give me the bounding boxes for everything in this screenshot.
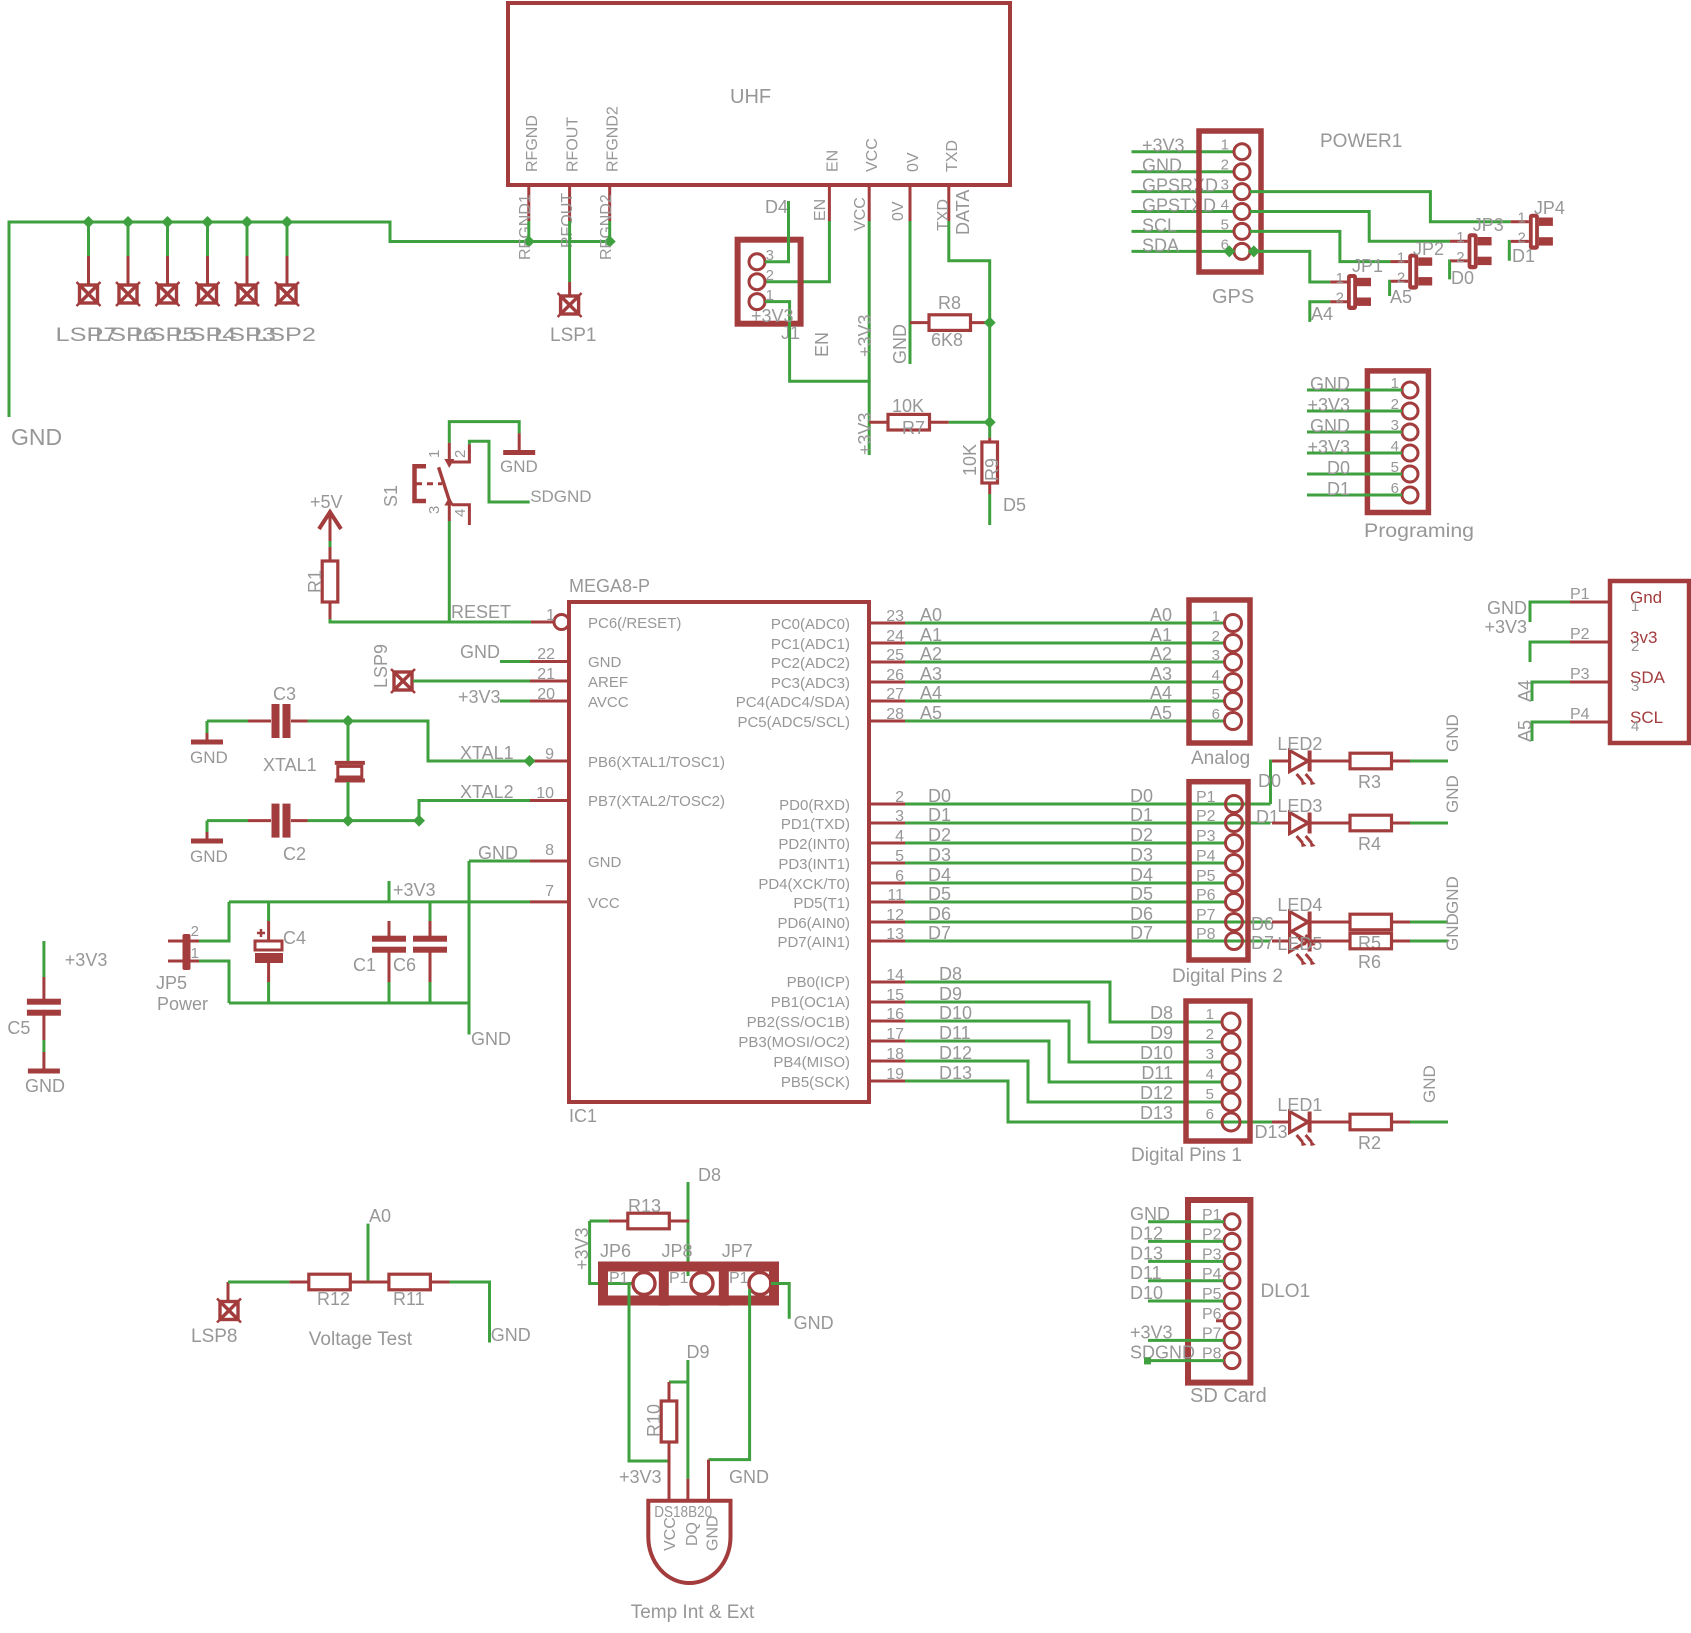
capacitor C4 electrolytic <box>255 902 306 1003</box>
svg-text:R8: R8 <box>938 293 961 313</box>
svg-text:RFOUT: RFOUT <box>565 117 582 172</box>
svg-text:A2: A2 <box>920 644 942 664</box>
svg-text:5: 5 <box>1221 216 1229 233</box>
svg-text:VCC: VCC <box>588 895 620 912</box>
svg-text:D1: D1 <box>1130 805 1153 825</box>
wire +3V3 to JP6 <box>572 1221 633 1284</box>
svg-text:2: 2 <box>895 789 904 806</box>
svg-text:JP3: JP3 <box>1473 215 1504 235</box>
svg-text:GND: GND <box>1443 714 1462 752</box>
pad LSP7 <box>56 216 118 346</box>
svg-text:26: 26 <box>886 667 904 684</box>
net GND pin8 <box>469 843 530 863</box>
svg-text:27: 27 <box>886 686 904 703</box>
svg-text:28: 28 <box>886 706 904 723</box>
pad LSP3 <box>214 216 276 346</box>
svg-text:2: 2 <box>1397 269 1405 286</box>
svg-text:IC1: IC1 <box>569 1106 597 1126</box>
svg-text:LSP9: LSP9 <box>371 644 391 688</box>
svg-text:D10: D10 <box>1130 1283 1163 1303</box>
net A5 stub at JP2 <box>1390 281 1412 307</box>
svg-text:R13: R13 <box>628 1196 661 1216</box>
svg-text:5: 5 <box>1206 1086 1214 1103</box>
svg-text:Programing: Programing <box>1364 521 1474 542</box>
wire net A1 <box>869 625 1225 645</box>
svg-text:PB6(XTAL1/TOSC1): PB6(XTAL1/TOSC1) <box>588 754 725 771</box>
svg-text:6: 6 <box>1206 1106 1214 1123</box>
svg-text:SDA: SDA <box>1142 235 1179 255</box>
switch S1 <box>381 443 469 525</box>
node GND label <box>11 424 62 450</box>
wire net D6 <box>869 904 1271 924</box>
wire net +3V3 at GPS <box>1132 136 1235 156</box>
junction RFGND1 bus <box>523 236 535 248</box>
wire R11 to GND stub <box>450 1282 531 1345</box>
wire net D11 at SD Card <box>1130 1263 1224 1283</box>
svg-text:LED3: LED3 <box>1277 796 1322 816</box>
svg-text:Power: Power <box>157 994 208 1014</box>
net D1 stub at JP4 <box>1509 241 1535 266</box>
svg-text:DQ: DQ <box>684 1522 701 1546</box>
svg-text:3: 3 <box>1206 1046 1214 1063</box>
svg-text:D5: D5 <box>1130 884 1153 904</box>
svg-text:12: 12 <box>886 907 904 924</box>
LED LED1 <box>1272 1095 1322 1146</box>
svg-text:D12: D12 <box>1130 1223 1163 1243</box>
svg-text:P3: P3 <box>1570 666 1590 683</box>
svg-text:D12: D12 <box>1140 1083 1173 1103</box>
svg-text:P1: P1 <box>609 1270 629 1287</box>
wire C3 to XTAL1 node <box>308 720 349 723</box>
svg-text:D12: D12 <box>939 1043 972 1063</box>
wire net D10 at SD Card <box>1130 1283 1224 1303</box>
resistor R1 <box>305 547 338 619</box>
svg-text:+5V: +5V <box>310 492 343 512</box>
svg-text:D13: D13 <box>939 1063 972 1083</box>
pin P6 stub <box>1216 1319 1224 1322</box>
wire A5 at P4 <box>1515 720 1570 742</box>
junction SDA left <box>1223 245 1235 257</box>
svg-text:3: 3 <box>1221 177 1229 194</box>
resistor R8 6K8 <box>910 293 990 350</box>
svg-text:GND: GND <box>1443 876 1462 914</box>
svg-text:D0: D0 <box>928 786 951 806</box>
svg-text:4: 4 <box>1631 718 1639 735</box>
svg-text:A3: A3 <box>1150 664 1172 684</box>
svg-text:C6: C6 <box>393 955 416 975</box>
svg-text:PC3(ADC3): PC3(ADC3) <box>771 675 850 692</box>
svg-text:DLO1: DLO1 <box>1261 1281 1311 1302</box>
net label +3V3 rail stub <box>389 880 436 902</box>
svg-text:C4: C4 <box>283 928 306 948</box>
svg-text:P5: P5 <box>1196 868 1216 885</box>
connector Analog header <box>1189 600 1250 769</box>
net GND pin22 <box>460 642 530 662</box>
svg-text:D0: D0 <box>1451 268 1474 288</box>
net D4 stub to J1 pin3 <box>765 197 789 262</box>
svg-text:15: 15 <box>886 987 904 1004</box>
svg-text:6K8: 6K8 <box>931 330 963 350</box>
net A4 stub at JP1 <box>1310 302 1333 324</box>
svg-text:1: 1 <box>1212 608 1220 625</box>
capacitor C2 <box>207 804 308 864</box>
capacitor C3 <box>207 684 308 738</box>
svg-text:+3V3: +3V3 <box>619 1467 662 1487</box>
svg-text:P1: P1 <box>1196 789 1216 806</box>
svg-text:C2: C2 <box>283 844 306 864</box>
svg-text:GND: GND <box>471 1029 511 1049</box>
svg-text:D4: D4 <box>928 865 951 885</box>
svg-text:D11: D11 <box>939 1023 971 1043</box>
svg-text:RFOUT: RFOUT <box>559 193 576 248</box>
svg-text:PC1(ADC1): PC1(ADC1) <box>771 636 850 653</box>
wire net A5 <box>869 703 1225 723</box>
svg-text:+3V3: +3V3 <box>65 950 108 970</box>
wire net A0 <box>869 605 1225 625</box>
svg-text:P4: P4 <box>1196 848 1216 865</box>
ground symbol GND (C5) <box>25 1040 65 1096</box>
capacitor C5 <box>7 977 61 1040</box>
wire net D0 at Programing <box>1307 458 1402 478</box>
svg-text:4: 4 <box>1206 1066 1214 1083</box>
pad LSP8 <box>191 1282 241 1347</box>
svg-text:D5: D5 <box>1003 495 1026 515</box>
svg-text:MEGA8-P: MEGA8-P <box>569 576 650 596</box>
wire net D9 <box>869 984 1222 1043</box>
svg-text:Digital Pins 1: Digital Pins 1 <box>1131 1145 1242 1166</box>
svg-text:R3: R3 <box>1358 772 1381 792</box>
svg-text:D11: D11 <box>1130 1263 1162 1283</box>
svg-text:A1: A1 <box>1150 625 1172 645</box>
resistor R3 <box>1310 753 1410 792</box>
svg-text:GPSRXD: GPSRXD <box>1142 176 1218 196</box>
svg-text:2: 2 <box>1456 249 1464 266</box>
wire to GND (R2) <box>1410 1065 1448 1122</box>
svg-text:A4: A4 <box>920 683 942 703</box>
resistor R4 <box>1310 815 1410 854</box>
wire to GND (R3) <box>1410 714 1462 761</box>
svg-text:+3V3: +3V3 <box>855 314 875 357</box>
svg-text:R7: R7 <box>902 418 925 438</box>
svg-text:C1: C1 <box>353 955 376 975</box>
svg-text:PC2(ADC2): PC2(ADC2) <box>771 655 850 672</box>
wire net D10 <box>869 1003 1222 1063</box>
svg-text:D9: D9 <box>1150 1023 1173 1043</box>
svg-text:D9: D9 <box>687 1342 710 1362</box>
svg-text:4: 4 <box>452 509 469 517</box>
IC U1 MEGA8-P box <box>569 576 869 1126</box>
svg-text:R2: R2 <box>1358 1133 1381 1153</box>
connector JP5 Power <box>156 923 208 1014</box>
svg-text:D6: D6 <box>1130 904 1153 924</box>
wire SDGND net <box>469 441 591 506</box>
wire S1 pin3 to RESET <box>448 521 451 622</box>
wire D13 through header to LED1 <box>1222 1121 1272 1124</box>
junction XTAL1 bottom <box>342 815 354 827</box>
svg-text:D8: D8 <box>939 964 962 984</box>
svg-text:20: 20 <box>537 686 555 703</box>
resistor R10 <box>644 1382 688 1461</box>
svg-text:LSP8: LSP8 <box>191 1326 237 1347</box>
pin 22 GND <box>530 646 622 671</box>
svg-text:A5: A5 <box>1150 703 1172 723</box>
resistor R2 <box>1310 1114 1410 1153</box>
svg-text:GND: GND <box>478 843 518 863</box>
svg-text:P4: P4 <box>1570 706 1590 723</box>
svg-text:AVCC: AVCC <box>588 694 629 711</box>
svg-text:D13: D13 <box>1255 1122 1288 1142</box>
wire C2 to XTAL bottom <box>308 819 349 822</box>
svg-text:GND: GND <box>25 1076 65 1096</box>
LED LED2 <box>1272 734 1322 785</box>
svg-text:1: 1 <box>1397 250 1405 267</box>
pad LSP2 <box>254 216 316 346</box>
wire net D13 at SD Card <box>1130 1243 1224 1263</box>
pin 8 GND <box>530 842 622 871</box>
wire VCC net <box>855 221 875 455</box>
svg-text:UHF: UHF <box>730 86 771 108</box>
wire GPSTXD to JP3 <box>1250 212 1450 242</box>
jumper JP3 <box>1450 215 1504 269</box>
svg-text:GND: GND <box>1487 598 1527 618</box>
svg-text:1: 1 <box>426 450 443 458</box>
svg-text:D4: D4 <box>765 197 788 217</box>
svg-text:PB2(SS/OC1B): PB2(SS/OC1B) <box>747 1014 850 1031</box>
svg-text:JP6: JP6 <box>600 1241 631 1261</box>
wire to GND (R4) <box>1410 775 1462 823</box>
junction RFGND2 bus <box>604 236 616 248</box>
svg-text:1: 1 <box>1221 137 1229 154</box>
junction R8/DATA <box>984 317 996 329</box>
svg-text:5: 5 <box>895 848 904 865</box>
svg-text:+3V3: +3V3 <box>855 412 875 455</box>
svg-text:PB7(XTAL2/TOSC2): PB7(XTAL2/TOSC2) <box>588 793 725 810</box>
wire net GND at GPS <box>1132 156 1235 176</box>
wire +3V3 VCC rail <box>229 900 530 903</box>
svg-text:2: 2 <box>1206 1026 1214 1043</box>
wire EN net UHF to J1 pin2 <box>765 221 829 282</box>
svg-text:9: 9 <box>545 746 554 763</box>
svg-text:0V: 0V <box>905 152 922 172</box>
svg-text:P8: P8 <box>1196 926 1216 943</box>
svg-text:SCL: SCL <box>1142 215 1177 235</box>
svg-text:S1: S1 <box>381 485 401 507</box>
pad LSP4 <box>175 216 238 346</box>
svg-text:1: 1 <box>1456 229 1464 246</box>
svg-text:JP5: JP5 <box>156 973 187 993</box>
svg-text:XTAL1: XTAL1 <box>460 743 514 763</box>
svg-text:RFGND: RFGND <box>524 115 541 172</box>
svg-text:D0: D0 <box>1130 786 1153 806</box>
wire net D13 <box>869 1063 1222 1123</box>
wire net D12 <box>869 1043 1222 1103</box>
svg-text:PD4(XCK/T0): PD4(XCK/T0) <box>758 876 850 893</box>
svg-text:D1: D1 <box>928 805 951 825</box>
svg-text:P1: P1 <box>669 1270 689 1287</box>
svg-text:RFGND2: RFGND2 <box>605 106 622 172</box>
resistor R11 <box>389 1274 450 1309</box>
pad LSP1 <box>550 293 596 346</box>
svg-text:7: 7 <box>545 883 554 900</box>
wire net SDA at GPS <box>1132 235 1235 255</box>
svg-text:LSP1: LSP1 <box>550 325 596 346</box>
svg-text:GND: GND <box>11 424 62 450</box>
svg-text:D8: D8 <box>1150 1003 1173 1023</box>
svg-text:JP4: JP4 <box>1534 198 1565 218</box>
connector DLO1 SD Card <box>1188 1200 1310 1407</box>
svg-text:XTAL2: XTAL2 <box>460 782 514 802</box>
svg-text:PB0(ICP): PB0(ICP) <box>787 974 850 991</box>
svg-text:GND: GND <box>190 748 228 767</box>
svg-text:P6: P6 <box>1196 887 1216 904</box>
svg-text:D1: D1 <box>1512 246 1535 266</box>
svg-text:TXD: TXD <box>944 140 961 172</box>
svg-text:GND: GND <box>1310 416 1350 436</box>
svg-text:PB4(MISO): PB4(MISO) <box>773 1054 850 1071</box>
svg-text:P1: P1 <box>729 1270 749 1287</box>
wire +3V3 J1 pin1 to VCC rail <box>751 302 869 382</box>
svg-text:R12: R12 <box>317 1289 350 1309</box>
svg-text:D10: D10 <box>1140 1043 1173 1063</box>
wire net D8 <box>869 964 1222 1023</box>
wire net D1 <box>869 805 1271 825</box>
connector Digital Pins 2 <box>1172 782 1283 987</box>
svg-text:D11: D11 <box>1141 1063 1173 1083</box>
svg-text:GND: GND <box>1443 913 1462 951</box>
svg-text:3: 3 <box>1631 678 1639 695</box>
svg-text:SD Card: SD Card <box>1190 1385 1267 1407</box>
svg-text:D0: D0 <box>1258 771 1281 791</box>
svg-text:10K: 10K <box>960 444 980 476</box>
svg-text:POWER1: POWER1 <box>1320 131 1402 152</box>
pad LSP5 <box>135 216 197 346</box>
UHF module box <box>508 3 1010 221</box>
svg-text:PD2(INT0): PD2(INT0) <box>778 836 850 853</box>
svg-text:DATA: DATA <box>953 190 973 235</box>
svg-text:PC4(ADC4/SDA): PC4(ADC4/SDA) <box>736 694 850 711</box>
svg-text:+3V3: +3V3 <box>1130 1322 1173 1342</box>
wire XTAL2 net to pin10 <box>348 801 530 821</box>
svg-text:JP2: JP2 <box>1413 239 1444 259</box>
svg-text:+3V3: +3V3 <box>458 687 501 707</box>
svg-text:23: 23 <box>886 608 904 625</box>
svg-text:GND: GND <box>704 1515 721 1551</box>
wire net D12 at SD Card <box>1130 1223 1224 1243</box>
svg-text:C3: C3 <box>273 684 296 704</box>
net D9 stub <box>687 1342 710 1479</box>
svg-text:GND: GND <box>890 324 910 364</box>
junction XTAL2 <box>413 815 425 827</box>
svg-text:D3: D3 <box>1130 845 1153 865</box>
wire GPSRXD to JP4 <box>1250 192 1511 222</box>
wire net A4 <box>869 683 1225 703</box>
svg-text:A4: A4 <box>1515 680 1535 702</box>
wire SDA to JP1 <box>1250 251 1330 282</box>
svg-text:Analog: Analog <box>1191 748 1250 769</box>
svg-text:+3V3: +3V3 <box>393 880 436 900</box>
wire JP6 to +3V3 (DS18B20 VCC) <box>629 1284 669 1462</box>
svg-text:13: 13 <box>886 926 904 943</box>
svg-text:GND: GND <box>460 642 500 662</box>
svg-text:4: 4 <box>895 828 904 845</box>
svg-text:22: 22 <box>537 646 555 663</box>
wire net D7 <box>869 923 1271 943</box>
wire to GND (R5) <box>1410 876 1462 922</box>
wire net D2 <box>869 825 1226 845</box>
wire net D0 <box>869 786 1271 806</box>
svg-text:+3V3: +3V3 <box>1484 617 1527 637</box>
svg-text:RFGND1: RFGND1 <box>517 194 534 260</box>
svg-text:D2: D2 <box>1130 825 1153 845</box>
svg-text:19: 19 <box>886 1066 904 1083</box>
svg-text:R6: R6 <box>1358 952 1381 972</box>
wire RESET net <box>330 602 554 622</box>
ground symbol GND (S1) <box>500 433 538 476</box>
wire 0V net <box>890 221 910 364</box>
svg-text:VCC: VCC <box>662 1517 679 1551</box>
svg-text:A5: A5 <box>920 703 942 723</box>
junction R7/DATA <box>984 416 996 428</box>
wire net +3V3 at Programing <box>1307 437 1402 457</box>
net A0 stub <box>368 1206 391 1282</box>
svg-text:11: 11 <box>887 887 904 904</box>
svg-text:25: 25 <box>886 647 904 664</box>
svg-text:2: 2 <box>766 267 774 284</box>
resistor R5 <box>1310 914 1410 953</box>
svg-text:4: 4 <box>1212 667 1220 684</box>
wire net SDGND at SD Card <box>1130 1343 1224 1363</box>
connector Programing header <box>1364 371 1474 542</box>
svg-text:A5: A5 <box>1515 720 1535 742</box>
svg-text:Temp Int & Ext: Temp Int & Ext <box>631 1602 755 1623</box>
wire RFGND2 to bus <box>608 221 611 242</box>
wire net D11 <box>869 1023 1222 1083</box>
svg-text:R10: R10 <box>644 1404 664 1437</box>
LED LED3 <box>1272 796 1322 847</box>
svg-text:+3V3: +3V3 <box>751 306 794 326</box>
svg-text:24: 24 <box>886 628 904 645</box>
svg-text:GND: GND <box>491 1325 531 1345</box>
svg-text:D1: D1 <box>1327 479 1350 499</box>
connector block JP6 JP8 JP7 <box>600 1241 774 1306</box>
svg-text:1: 1 <box>1336 270 1344 287</box>
svg-text:1: 1 <box>1631 598 1639 615</box>
wire GND bottom rail <box>229 1002 469 1005</box>
jumper JP1 <box>1330 256 1383 310</box>
svg-text:GND: GND <box>1130 1204 1170 1224</box>
wire net GPSTXD at GPS <box>1132 196 1235 216</box>
connector Digital Pins 1 <box>1131 1001 1250 1166</box>
resistor R6 <box>1310 933 1410 972</box>
svg-text:D7: D7 <box>1251 933 1274 953</box>
svg-text:D2: D2 <box>928 825 951 845</box>
svg-text:3: 3 <box>895 808 904 825</box>
net +3V3 C5 stub <box>44 941 107 977</box>
svg-text:3: 3 <box>426 506 443 514</box>
net D8 stub <box>688 1165 721 1276</box>
connector SCL/SDA breakout <box>1570 581 1689 743</box>
svg-text:PB3(MOSI/OC2): PB3(MOSI/OC2) <box>738 1034 850 1051</box>
wire net A2 <box>869 644 1225 664</box>
svg-text:D6: D6 <box>1251 914 1274 934</box>
svg-text:XTAL1: XTAL1 <box>263 755 317 775</box>
svg-text:8: 8 <box>545 842 554 859</box>
svg-text:VCC: VCC <box>852 197 869 231</box>
svg-text:+3V3: +3V3 <box>1142 136 1185 156</box>
svg-text:GND: GND <box>1310 374 1350 394</box>
wire GND at P1 <box>1487 598 1570 622</box>
svg-text:LSP2: LSP2 <box>254 325 316 346</box>
